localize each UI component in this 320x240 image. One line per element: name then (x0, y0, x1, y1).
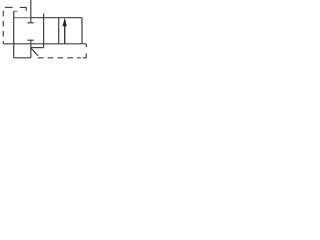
valve body top edge (main) (31, 17, 82, 19)
pilot dashed: top horizontal dash 2 + corner down (20, 7, 26, 10)
top tick at left outer vertical (14, 10, 18, 12)
arrow shaft (64, 23, 66, 44)
right edge x=82 (81, 18, 83, 44)
valve schematic (pilot-operated directional valve) (0, 0, 91, 69)
divider A x=43.6 with port stubs (43, 14, 45, 48)
wire: main vertical supply line x=30.8 (top, ends at blocked-port bar) (30, 0, 32, 23)
blocked port crossbar top (27, 22, 33, 24)
drain dashed: bottom horizontal dashes y=57.8 (77, 57, 81, 59)
drain dashed: corner dash (83, 53, 87, 58)
valve body bottom edge with left extension (3, 43, 86, 45)
port L horizontal (31, 47, 44, 49)
pilot dashed: top horizontal dash 1 (5, 6, 13, 8)
left outer vertical (13, 11, 15, 58)
diagonal lever (31, 48, 38, 56)
divider B x=58.7 (58, 18, 60, 44)
bottom horizontal solid (14, 57, 31, 59)
wire: main vertical lower segment from bottom bar down (30, 40, 32, 58)
blocked port crossbar bottom (27, 39, 33, 41)
drain dashed: right vertical dash 1 (85, 44, 87, 47)
pilot dashed: left vertical dashes x=3.3 (2, 11, 4, 17)
valve body top edge (faint left part) (14, 17, 31, 19)
arrow head (63, 18, 67, 27)
